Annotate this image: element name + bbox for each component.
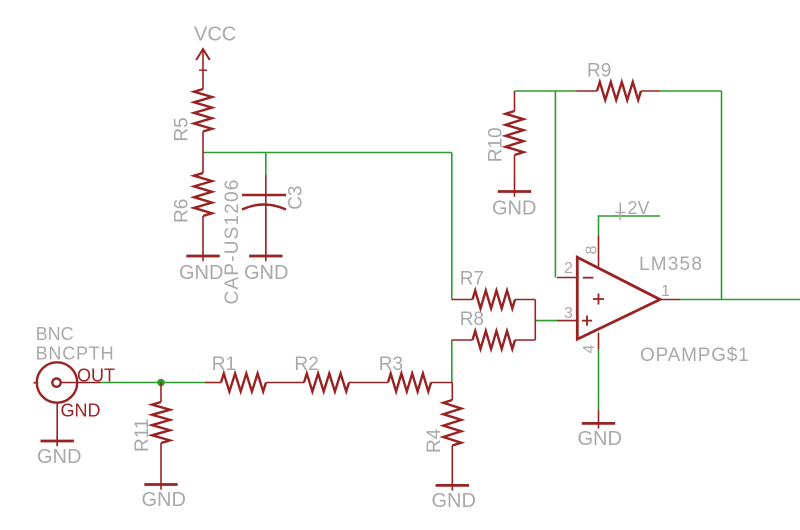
svg-text:R3: R3 xyxy=(379,354,403,375)
wire: feedback node down to pin 2 xyxy=(554,91,556,278)
svg-text:R11: R11 xyxy=(132,419,153,452)
svg-text:1: 1 xyxy=(661,283,670,300)
supply VCC symbol xyxy=(194,24,236,90)
svg-text:GND: GND xyxy=(142,489,186,511)
wire: top net from R5/R6 junction to right xyxy=(203,152,452,154)
supply +12V symbol xyxy=(615,198,649,220)
svg-text:8: 8 xyxy=(584,246,601,255)
svg-text:R6: R6 xyxy=(172,199,193,223)
ground under R4 xyxy=(432,446,476,513)
svg-text:C3: C3 xyxy=(286,186,307,210)
svg-text:CAP-US1206: CAP-US1206 xyxy=(222,178,243,304)
ground under R11 xyxy=(142,443,186,511)
resistor R4 xyxy=(424,383,461,454)
node junction dot on main line xyxy=(157,379,165,387)
svg-text:3: 3 xyxy=(564,305,573,322)
op-amp plus mark near pin 3 xyxy=(582,316,592,326)
svg-text:OPAMPG$1: OPAMPG$1 xyxy=(640,345,750,366)
wire: R9 right to corner xyxy=(660,90,722,92)
svg-text:GND: GND xyxy=(432,490,476,512)
wire: R8 left up from R3/R4 junction xyxy=(451,340,453,383)
svg-text:BNC: BNC xyxy=(36,324,74,344)
op-amp pin 2 stub xyxy=(557,277,579,279)
op-amp pin 1 stub xyxy=(660,299,680,301)
wire: feedback right vertical xyxy=(721,91,723,300)
resistor R5 xyxy=(172,89,213,153)
wire: red bracket joining R7/R8 right ends xyxy=(534,300,536,341)
resistor R3 xyxy=(379,354,431,392)
svg-text:GND: GND xyxy=(179,262,223,284)
ground under op-amp xyxy=(578,410,622,450)
wire: pin3 net xyxy=(535,320,558,322)
resistor R6 xyxy=(172,153,213,224)
svg-text:4: 4 xyxy=(581,345,598,354)
connector BNC xyxy=(34,324,116,446)
op-amp pin 4 stub xyxy=(598,333,600,349)
op-amp pin 3 stub xyxy=(557,320,579,322)
svg-text:OUT: OUT xyxy=(77,365,115,385)
svg-text:R2: R2 xyxy=(294,354,318,375)
wire: 12V supply L to pin 8 xyxy=(599,216,661,236)
svg-text:2V: 2V xyxy=(628,198,650,218)
wire R3 to junction xyxy=(431,382,452,384)
svg-text:BNCPTH: BNCPTH xyxy=(36,344,115,364)
resistor R2 xyxy=(294,354,349,392)
op-amp labels xyxy=(564,246,750,367)
wire: main signal line BNC to R1 xyxy=(100,382,205,384)
svg-text:R1: R1 xyxy=(212,354,236,375)
resistor R9 xyxy=(576,61,660,101)
resistor R1 xyxy=(205,354,266,392)
resistor R10 xyxy=(486,91,524,162)
svg-text:VCC: VCC xyxy=(194,24,236,46)
svg-text:R10: R10 xyxy=(486,127,507,162)
op-amp OPAMPG$1 (LM358) triangle xyxy=(577,257,660,339)
svg-text:R5: R5 xyxy=(172,117,193,141)
resistor R8 xyxy=(452,309,536,349)
op-amp pin 8 stub xyxy=(598,236,600,267)
op-amp center plus mark xyxy=(593,294,604,305)
svg-text:GND: GND xyxy=(578,428,622,450)
svg-text:R9: R9 xyxy=(587,61,611,82)
svg-text:R4: R4 xyxy=(424,428,445,453)
wire: pin 4 down to GND xyxy=(598,349,600,410)
resistor R11 xyxy=(132,383,170,453)
svg-text:R7: R7 xyxy=(460,269,484,290)
wire: R10 top to R9 left xyxy=(515,90,577,92)
svg-text:GND: GND xyxy=(61,401,101,421)
svg-text:GND: GND xyxy=(492,198,536,220)
wire R1-R2 xyxy=(266,382,304,384)
wire: output net xyxy=(680,299,800,301)
svg-text:GND: GND xyxy=(244,262,288,284)
ground under R6 xyxy=(179,216,223,284)
capacitor C3 xyxy=(222,175,307,305)
resistor R7 xyxy=(452,269,536,309)
svg-text:R8: R8 xyxy=(460,309,484,330)
ground under BNC xyxy=(37,436,81,468)
svg-text:GND: GND xyxy=(37,446,81,468)
svg-text:LM358: LM358 xyxy=(639,254,703,275)
wire: drop to C3 xyxy=(265,153,267,176)
svg-text:2: 2 xyxy=(564,260,573,277)
wire: vertical down to R7 left xyxy=(451,153,453,300)
ground under C3 xyxy=(244,208,288,285)
ground under R10 xyxy=(492,155,536,220)
wire R2-R3 xyxy=(349,382,388,384)
op-amp minus mark xyxy=(583,277,594,279)
